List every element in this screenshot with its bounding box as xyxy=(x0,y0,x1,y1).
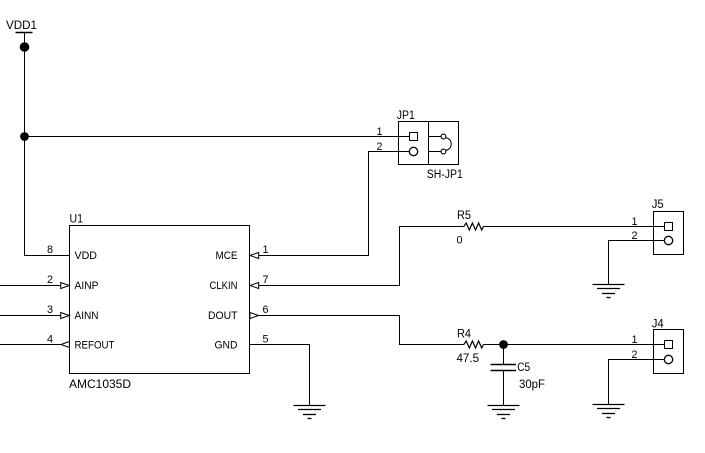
svg-text:JP1: JP1 xyxy=(397,110,415,122)
pin 8 VDD xyxy=(47,244,97,262)
ground at C5 xyxy=(488,406,520,419)
resistor R5 xyxy=(464,223,484,230)
svg-text:R5: R5 xyxy=(457,210,471,222)
svg-text:47.5: 47.5 xyxy=(457,353,480,365)
capacitor C5 xyxy=(491,345,517,406)
svg-text:CLKIN: CLKIN xyxy=(210,280,238,292)
wire JP1 pin 2 to U1 MCE xyxy=(259,152,399,256)
svg-text:DOUT: DOUT xyxy=(208,310,238,322)
svg-text:7: 7 xyxy=(263,274,269,286)
svg-text:8: 8 xyxy=(47,244,53,256)
svg-text:J4: J4 xyxy=(652,319,665,331)
wire J5 pin 2 to ground xyxy=(609,241,654,285)
pin 2 AINP xyxy=(47,274,99,292)
svg-text:1: 1 xyxy=(376,126,382,138)
wire input to AINN xyxy=(0,315,61,317)
svg-text:6: 6 xyxy=(263,304,269,316)
pin 7 CLKIN xyxy=(210,274,269,292)
junction dot at VDD branch xyxy=(20,132,29,141)
ground at U1 GND xyxy=(294,406,326,419)
svg-text:0: 0 xyxy=(457,235,463,247)
svg-text:C5: C5 xyxy=(517,362,530,374)
pin 3 AINN xyxy=(47,304,99,322)
svg-text:R4: R4 xyxy=(457,329,472,341)
JP1 pin 1 square pad xyxy=(399,133,418,141)
connector J4 body xyxy=(654,330,684,374)
JP1 pin 2 round pad xyxy=(399,147,418,155)
wire VDD1 down to junction xyxy=(24,47,26,137)
ground at J5 xyxy=(593,285,625,298)
wire U1 DOUT to R4 xyxy=(259,316,464,345)
svg-text:3: 3 xyxy=(47,304,53,316)
wire R4 to junction xyxy=(483,344,503,346)
svg-text:AMC1035D: AMC1035D xyxy=(69,377,131,391)
svg-text:1: 1 xyxy=(263,244,269,256)
svg-text:U1: U1 xyxy=(70,212,84,226)
svg-text:MCE: MCE xyxy=(216,250,238,262)
connector JP1 body xyxy=(399,122,459,165)
svg-text:5: 5 xyxy=(263,334,269,346)
resistor R4 xyxy=(464,341,484,348)
connector J5 body xyxy=(654,212,684,255)
J4 pin 1 square pad xyxy=(654,341,673,349)
pin 1 MCE xyxy=(216,244,269,262)
wire VDD vertical down to U1 pin 8 xyxy=(25,137,70,256)
svg-text:VDD: VDD xyxy=(75,250,98,262)
svg-text:SH-JP1: SH-JP1 xyxy=(427,169,463,181)
svg-text:VDD1: VDD1 xyxy=(6,20,37,32)
ground at J4 xyxy=(593,405,625,418)
wire junction to J4 pin 1 xyxy=(504,344,654,346)
junction dot at C5 xyxy=(499,340,508,349)
power symbol VDD1 xyxy=(16,33,33,52)
svg-text:J5: J5 xyxy=(652,199,664,211)
wire U1 GND to ground xyxy=(250,345,310,406)
svg-text:30pF: 30pF xyxy=(519,379,545,391)
svg-text:AINN: AINN xyxy=(75,310,99,322)
pin 5 GND xyxy=(215,334,269,352)
JP1 shunt SH-JP1 xyxy=(429,134,452,154)
wire J4 pin 2 to ground xyxy=(609,360,654,405)
J5 pin 1 square pad xyxy=(654,223,673,231)
svg-text:GND: GND xyxy=(215,340,238,352)
svg-text:REFOUT: REFOUT xyxy=(75,340,115,352)
wire input to AINP xyxy=(0,285,61,287)
svg-text:2: 2 xyxy=(47,274,53,286)
svg-text:AINP: AINP xyxy=(75,280,99,292)
svg-text:1: 1 xyxy=(631,334,637,346)
svg-text:1: 1 xyxy=(631,216,637,228)
pin 6 DOUT xyxy=(208,304,269,322)
wire REFOUT output xyxy=(0,344,61,346)
J5 pin 2 round pad xyxy=(654,236,673,244)
IC U1 body xyxy=(70,226,250,374)
pin 4 REFOUT xyxy=(47,334,115,352)
svg-text:4: 4 xyxy=(47,334,53,346)
wire junction to JP1 pin 1 xyxy=(25,136,399,138)
wire U1 CLKIN to R5 xyxy=(259,227,464,286)
wire R5 to J5 pin 1 xyxy=(483,226,653,228)
J4 pin 2 round pad xyxy=(654,355,673,363)
